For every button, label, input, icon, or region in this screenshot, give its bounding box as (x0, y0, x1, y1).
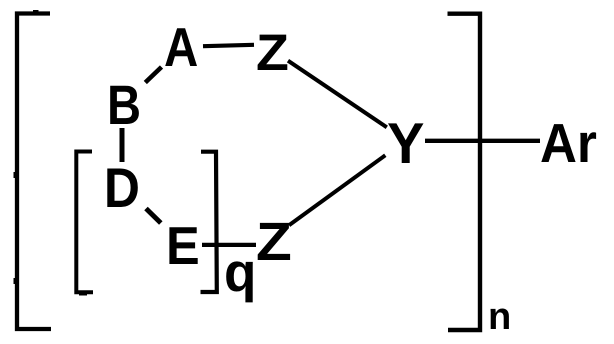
atom B (110, 86, 139, 124)
bond Y-Ar (425, 139, 540, 143)
bond Z-Y (288, 61, 387, 128)
subscript n (491, 309, 509, 330)
inner right bracket (201, 152, 217, 292)
bond E-Z (202, 243, 256, 247)
atom E (169, 227, 197, 264)
bond B-A (145, 67, 161, 83)
atom Y (388, 123, 424, 163)
subscript q (226, 261, 253, 302)
group Ar (541, 124, 596, 162)
outer left bracket (14, 10, 52, 329)
atom Z bottom (258, 223, 290, 260)
atom Z top (258, 35, 288, 70)
bond B-D (120, 128, 125, 162)
bond A-Z (203, 45, 254, 46)
atom A (165, 28, 197, 66)
bond D-E (146, 209, 161, 224)
atom D (107, 169, 138, 208)
inner left bracket (76, 152, 93, 296)
outer right bracket (448, 14, 481, 330)
bond Z2-Y (289, 155, 385, 225)
